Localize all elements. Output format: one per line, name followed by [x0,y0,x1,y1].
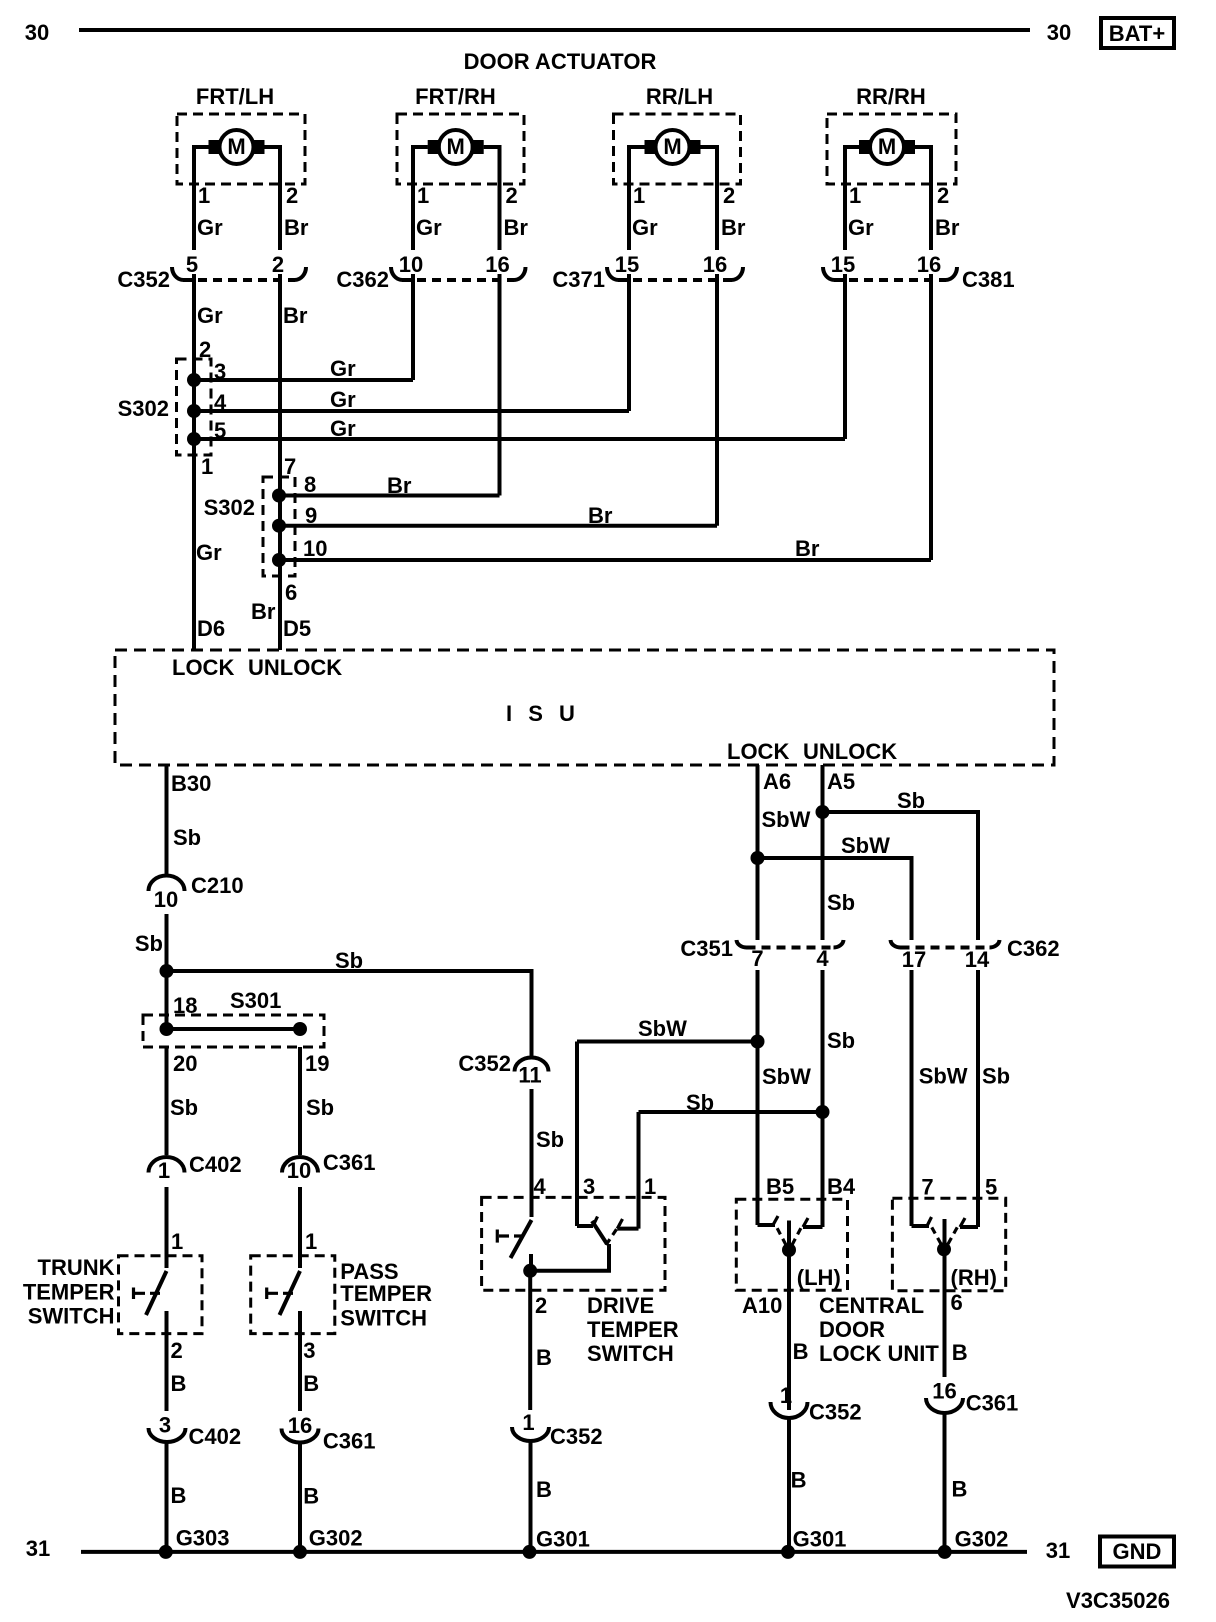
svg-text:Br: Br [588,503,613,528]
svg-text:16: 16 [917,252,941,277]
svg-text:2: 2 [171,1338,183,1363]
svg-text:16: 16 [932,1379,956,1404]
svg-text:2: 2 [937,183,949,208]
svg-text:2: 2 [535,1293,547,1318]
wire pass switch to pin 3 [298,1311,302,1411]
wire Sb C352-11 to drive switch [530,1089,534,1217]
wire RR/LH pin1 Gr [629,147,645,250]
svg-text:Sb: Sb [897,788,925,813]
junction S301 left [160,1022,174,1036]
LH unit contact B5 [758,1216,779,1225]
svg-text:31: 31 [1046,1538,1070,1563]
svg-text:Gr: Gr [196,540,222,565]
svg-text:16: 16 [703,252,727,277]
svg-text:7: 7 [284,454,296,479]
splice S302 Gr box [177,359,212,455]
svg-text:Br: Br [283,303,308,328]
wire RR/LH pin2 Br [701,147,718,250]
junction S302-9 [272,519,286,533]
wire RR/RH pin2 Br [915,147,931,250]
wire B C402 to G303 [165,1442,169,1552]
svg-text:C381: C381 [962,267,1015,292]
svg-text:Gr: Gr [330,356,356,381]
svg-text:C351: C351 [680,936,733,961]
svg-text:C361: C361 [966,1391,1019,1416]
wire SbW C351-7 to B5 [756,970,760,1225]
wire RR/RH pin1 Gr [845,147,859,250]
svg-text:M: M [447,134,465,159]
wire Sb C351-4 to B4 [821,970,825,1227]
svg-text:31: 31 [26,1536,50,1561]
wire Sb S301-19 to C361 [298,1047,302,1155]
RH unit dashed blade left [931,1226,941,1244]
svg-text:TRUNK: TRUNK [38,1255,115,1280]
drive switch contact pin1 [617,1219,638,1229]
svg-text:Sb: Sb [827,890,855,915]
svg-text:B: B [171,1371,187,1396]
central door lock unit RH box [892,1198,1005,1291]
svg-text:B: B [171,1483,187,1508]
svg-text:B: B [536,1477,552,1502]
svg-text:11: 11 [518,1062,541,1087]
svg-text:10: 10 [303,536,327,561]
svg-text:16: 16 [288,1413,312,1438]
svg-text:C361: C361 [323,1429,376,1454]
wire Sb to C352-11 [167,971,532,1058]
svg-text:(LH): (LH) [797,1265,841,1290]
wire net 30 bus [79,28,1030,32]
svg-text:15: 15 [615,252,639,277]
wire net 31 bus [81,1550,1027,1554]
svg-text:A5: A5 [827,769,855,794]
svg-text:M: M [227,134,245,159]
svg-text:A10: A10 [742,1293,782,1318]
junction drive pole [523,1264,537,1278]
junction Sb drive branch [816,1105,830,1119]
junction S302-3 [187,373,201,387]
svg-text:(RH): (RH) [951,1265,997,1290]
ground G301 right [781,1545,795,1559]
svg-text:A6: A6 [763,769,791,794]
svg-text:10: 10 [287,1158,311,1183]
svg-text:14: 14 [965,947,990,972]
svg-text:6: 6 [951,1290,963,1315]
svg-text:Gr: Gr [197,215,223,240]
pass switch actuator [267,1288,293,1300]
svg-text:Sb: Sb [686,1090,714,1115]
svg-text:SWITCH: SWITCH [28,1304,115,1329]
svg-text:1: 1 [158,1158,170,1183]
connector C381 upper [823,252,1015,292]
wire Br C362-16 down [498,274,502,496]
RH unit pole junction [937,1242,951,1256]
wire FRT/RH pin1 Gr [413,147,428,250]
trunk temper switch label [23,1255,115,1329]
svg-text:SbW: SbW [919,1064,968,1089]
svg-text:SWITCH: SWITCH [587,1341,674,1366]
drive switch contact pin3 [577,1217,598,1227]
wire Gr C362-10 down [411,274,415,380]
wire B C352 to G301 [529,1441,533,1552]
wire Gr S302-5 to C381-15 [194,437,845,441]
wire B LH to G301 [787,1418,791,1552]
svg-text:15: 15 [831,252,855,277]
RH unit contact 5 [960,1218,978,1227]
svg-text:Gr: Gr [848,215,874,240]
trunk switch blade [146,1271,167,1315]
svg-text:B: B [952,1340,968,1365]
svg-text:M: M [878,134,896,159]
pass temper switch label [340,1259,432,1331]
connector C362 lower [891,936,1060,972]
svg-text:2: 2 [199,337,211,362]
svg-text:1: 1 [633,183,645,208]
svg-text:2: 2 [506,183,518,208]
junction S302-5 [187,432,201,446]
svg-text:FRT/LH: FRT/LH [196,84,274,109]
door actuator RR/LH dashed box [614,114,741,184]
LH unit pole wire [787,1221,791,1411]
wire drive pole to pin 2 [528,1271,532,1410]
svg-text:2: 2 [723,183,735,208]
svg-text:Gr: Gr [330,416,356,441]
wire S301 internal [167,1027,301,1031]
wire SbW C362-17 to RH-7 [910,970,914,1226]
drive temper switch box [482,1197,665,1290]
connector C352 upper [117,252,306,292]
wire Br S302-8 to C362-16 [279,494,500,498]
svg-text:B30: B30 [171,771,211,796]
wire Sb S301-20 to C402 [165,1047,169,1155]
svg-text:Sb: Sb [827,1028,855,1053]
wire Gr C381-15 down [843,274,847,439]
svg-text:1: 1 [522,1410,534,1435]
svg-text:CENTRAL: CENTRAL [819,1293,924,1318]
LH unit dashed blade left [776,1226,786,1245]
LH unit pole junction [782,1243,796,1257]
connector C210 [149,873,244,912]
wire Sb C402 to trunk switch [165,1187,169,1268]
svg-text:B4: B4 [827,1174,856,1199]
svg-text:B5: B5 [766,1174,794,1199]
svg-text:D5: D5 [283,616,311,641]
svg-text:Br: Br [284,215,309,240]
wire FRT/LH pin2 Br [265,147,281,250]
svg-text:C352: C352 [117,267,170,292]
svg-text:B: B [536,1345,552,1370]
svg-text:S302: S302 [118,396,169,421]
svg-text:16: 16 [485,252,509,277]
svg-text:Gr: Gr [197,303,223,328]
svg-text:LOCK UNIT: LOCK UNIT [819,1341,939,1366]
junction Sb branch [160,964,174,978]
svg-text:GND: GND [1113,1539,1162,1564]
svg-text:DOOR: DOOR [819,1317,885,1342]
wire Br C371-16 down [715,274,719,526]
connector C361 pin 10 [282,1150,375,1183]
connector C352 pin 11 [458,1051,548,1087]
connector C361 pin 16 RH [926,1379,1018,1416]
svg-text:V3C35026: V3C35026 [1066,1588,1170,1613]
wire SbW ISU A6 down [756,765,760,940]
pass switch blade [280,1271,301,1315]
connector C362 upper [336,252,525,292]
drive switch actuator [497,1230,524,1243]
svg-text:G302: G302 [955,1527,1009,1552]
connector C402 pin 3 [149,1413,242,1450]
svg-text:Br: Br [387,473,412,498]
junction SbW drive branch [751,1035,765,1049]
svg-text:20: 20 [173,1051,197,1076]
drive switch lower contact stub [529,1254,533,1271]
svg-text:G301: G301 [536,1527,590,1552]
svg-text:B: B [952,1477,968,1502]
svg-text:Sb: Sb [170,1095,198,1120]
motor M RR/LH [645,130,701,164]
RH unit dashed blade right [948,1226,958,1244]
junction A6 branch [751,851,765,865]
junction S301 right [293,1022,307,1036]
svg-text:1: 1 [780,1383,792,1408]
svg-text:DRIVE: DRIVE [587,1293,654,1318]
svg-text:TEMPER: TEMPER [340,1281,432,1306]
svg-text:1: 1 [171,1229,183,1254]
svg-text:Br: Br [935,215,960,240]
svg-text:1: 1 [417,183,429,208]
svg-text:2: 2 [286,183,298,208]
central door lock unit label [819,1293,939,1366]
svg-text:7: 7 [921,1175,933,1200]
wire Sb A5 to C362-14 [823,812,979,940]
ground G302 left [293,1545,307,1559]
door actuator FRT/RH dashed box [397,114,524,184]
svg-text:B: B [303,1484,319,1509]
svg-text:C352: C352 [809,1400,862,1425]
svg-text:2: 2 [272,252,284,277]
svg-text:C352: C352 [550,1424,603,1449]
wire SbW drive pin3 branch [577,1042,758,1227]
svg-text:3: 3 [159,1413,171,1438]
wire trunk switch to pin 2 [165,1311,169,1411]
svg-text:Gr: Gr [632,215,658,240]
motor M FRT/RH [428,130,484,164]
wire Br C352-2 to ISU D5 [278,274,282,650]
svg-text:4: 4 [816,946,829,971]
trunk switch actuator [134,1288,161,1300]
svg-text:1: 1 [849,183,861,208]
central door lock unit LH box [736,1199,847,1290]
wire Gr C352-5 to ISU D6 [192,274,196,650]
connector C351 [680,936,843,971]
svg-text:S301: S301 [230,988,281,1013]
wire drive pole [530,1244,609,1271]
svg-text:6: 6 [285,580,297,605]
wire SbW A6 to C362-17 [758,858,912,940]
junction S302-8 [272,489,286,503]
connector C352 pin 1 LH [771,1383,862,1425]
net GND box [1100,1537,1174,1567]
ISU box [115,650,1054,765]
svg-text:DOOR ACTUATOR: DOOR ACTUATOR [464,49,657,74]
svg-text:5: 5 [985,1175,997,1200]
wire FRT/RH pin2 Br [484,147,500,250]
svg-text:TEMPER: TEMPER [23,1280,115,1305]
RH unit pole wire [943,1219,947,1377]
svg-text:C402: C402 [189,1424,242,1449]
svg-text:Gr: Gr [416,215,442,240]
splice S302 Br box [263,477,295,576]
svg-text:SWITCH: SWITCH [340,1306,427,1331]
svg-text:Sb: Sb [335,948,363,973]
svg-text:30: 30 [25,20,49,45]
svg-text:D6: D6 [197,616,225,641]
svg-text:1: 1 [198,183,210,208]
svg-text:B: B [303,1371,319,1396]
splice S301 box [143,1015,324,1047]
svg-text:3: 3 [303,1338,315,1363]
pass temper switch box [251,1256,335,1334]
door actuator RR/RH dashed box [827,114,956,184]
svg-text:RR/LH: RR/LH [646,84,713,109]
wire Gr C371-15 down [627,274,631,411]
svg-text:SbW: SbW [841,833,890,858]
svg-text:C362: C362 [336,267,389,292]
svg-text:SbW: SbW [638,1016,687,1041]
wire B C361 to G302 [298,1443,302,1553]
svg-text:10: 10 [154,887,178,912]
wire Br C381-16 down [929,274,933,560]
svg-text:SbW: SbW [762,807,811,832]
svg-text:10: 10 [399,252,423,277]
svg-text:BAT+: BAT+ [1109,21,1165,46]
ground G302 right [938,1545,952,1559]
svg-text:1: 1 [644,1174,656,1199]
connector C371 upper [552,252,743,292]
junction S302-10 [272,553,286,567]
LH unit dashed blade right [792,1226,802,1245]
svg-text:Sb: Sb [173,825,201,850]
svg-text:Gr: Gr [330,387,356,412]
svg-text:LOCK: LOCK [727,739,789,764]
svg-text:TEMPER: TEMPER [587,1317,679,1342]
wire FRT/LH pin1 Gr [194,147,209,250]
svg-text:SbW: SbW [762,1064,811,1089]
wire Gr S302-4 to C371-15 [194,409,629,413]
svg-text:C402: C402 [189,1152,242,1177]
svg-text:Br: Br [251,599,276,624]
ground G303 [159,1545,173,1559]
motor M RR/RH [859,130,915,164]
svg-text:S302: S302 [204,495,255,520]
svg-text:UNLOCK: UNLOCK [248,655,342,680]
connector C352 pin 1 drive [512,1410,603,1449]
svg-text:1: 1 [305,1229,317,1254]
wire Sb ISU A5 down [821,765,825,940]
svg-text:G303: G303 [176,1526,230,1551]
LH unit contact B4 [803,1218,823,1227]
svg-text:B: B [793,1339,809,1364]
svg-text:Br: Br [721,215,746,240]
svg-text:Br: Br [504,215,529,240]
svg-text:C371: C371 [552,267,605,292]
svg-text:B: B [791,1468,807,1493]
wire Sb ISU B30 down [165,765,169,874]
door actuator FRT/LH dashed box [177,114,305,184]
svg-text:17: 17 [902,947,926,972]
svg-text:Br: Br [795,536,820,561]
connector C402 pin 1 [149,1152,242,1183]
svg-text:C362: C362 [1007,936,1060,961]
svg-text:RR/RH: RR/RH [856,84,926,109]
svg-text:Sb: Sb [135,931,163,956]
svg-text:LOCK: LOCK [172,655,234,680]
svg-text:I S U: I S U [506,701,580,726]
wire Gr S302-3 to C362-10 [194,378,413,382]
net BAT+ box [1101,18,1174,48]
RH unit contact 7 [912,1217,932,1226]
wire Sb drive pin1 branch [639,1112,823,1229]
wire B RH to G302 [943,1413,947,1552]
svg-text:Sb: Sb [306,1095,334,1120]
svg-text:Sb: Sb [982,1064,1010,1089]
trunk temper switch box [119,1256,203,1334]
wire Sb C210 to S301 [165,914,169,1029]
svg-text:C210: C210 [191,873,244,898]
drive switch blade [511,1220,532,1258]
svg-text:G301: G301 [793,1527,847,1552]
svg-text:C361: C361 [323,1150,376,1175]
wire Sb C361 to pass switch [298,1187,302,1268]
svg-text:4: 4 [534,1174,547,1199]
drive switch blade solid [592,1221,607,1244]
svg-text:FRT/RH: FRT/RH [415,84,496,109]
wire Br S302-10 to C381-16 [279,558,931,562]
connector C361 pin 16 [282,1413,376,1454]
svg-text:5: 5 [186,252,198,277]
drive temper switch label [587,1293,679,1366]
svg-text:UNLOCK: UNLOCK [803,739,897,764]
wire Sb C362-14 to RH-5 [976,970,980,1227]
wire Br S302-9 to C371-16 [279,524,717,528]
svg-text:Sb: Sb [536,1127,564,1152]
motor M FRT/LH [209,130,265,164]
svg-text:30: 30 [1047,20,1071,45]
ground G301 left [523,1545,537,1559]
svg-text:3: 3 [583,1174,595,1199]
svg-text:1: 1 [201,454,213,479]
junction S302-4 [187,404,201,418]
svg-text:C352: C352 [458,1051,511,1076]
svg-text:M: M [663,134,681,159]
svg-text:7: 7 [751,946,763,971]
svg-text:19: 19 [305,1051,329,1076]
junction A5 branch [816,805,830,819]
svg-text:8: 8 [304,472,316,497]
drive switch blade dashed [606,1224,620,1245]
svg-text:G302: G302 [309,1526,363,1551]
